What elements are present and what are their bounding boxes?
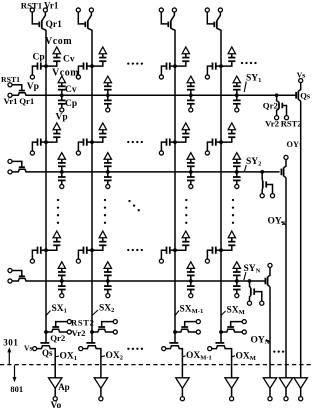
node output terminal OYN [268,397,272,401]
wire continuation dots column X3 [185,199,187,224]
capacitor Cv stack col2 rowline2 [104,159,112,174]
capacitor Cv stack col3 rowline3 [187,268,195,283]
svg-text:OXM: OXM [236,352,256,363]
wire 801 arrow [13,365,17,382]
capacitor Cv stack col1 rowline1 [58,83,66,98]
wire continuation dots band3 mid [127,249,143,251]
label RST2 (bottom col1) [71,317,95,327]
capacitor Cp stack col1 rowline2 [58,172,66,184]
wire continuation dots band1 mid [127,62,143,64]
node Vr2 terminal row3 [247,301,251,305]
transistor Qs row1 [296,83,301,101]
wire column line X3 [174,30,176,343]
leader OXM-1 [182,356,185,357]
capacitor Cp cell col2 row1 [78,63,94,75]
label Vr1 (left row1) [4,96,18,106]
capacitor Cp stack col1 rowline1 [58,95,66,107]
transistor Qr1 col3 [161,12,175,30]
power Vcom symbol cell col3 row1 [182,47,189,54]
node Vo terminal col3 [180,397,184,401]
power Vcom symbol cell col4 row2 [228,123,235,130]
svg-text:Qr1: Qr1 [46,20,63,30]
leader OY2 [281,222,286,225]
power Vcom symbol cell col3 row2 [182,123,189,130]
node Vr1 terminal col3 [172,8,176,12]
power Vcom symbol stack col1 rowline3 [58,262,65,269]
op-amp output OYN [263,378,276,397]
node Vp terminal cell col4 row1 [205,75,209,79]
wire output line OY2 [285,178,287,378]
svg-text:Qr1: Qr1 [19,96,34,106]
node RST1 terminal col2 [76,8,80,12]
node Vp terminal cell col2 row1 [76,75,80,79]
label OX2 [106,351,124,362]
label OY2 [268,217,286,228]
wire row line Y2 [12,169,279,172]
label Vp (stack row1) [56,113,68,123]
node Vp terminal stack col3 rowline3 [189,294,193,298]
svg-text:RST1: RST1 [1,75,20,84]
capacitor Cv cell col2 row3 [92,238,106,250]
transistor Qr2 col3 [173,322,196,334]
leader OX1 [55,355,59,358]
capacitor Cp cell col3 row2 [161,139,177,151]
capacitor Cp stack col1 rowline3 [58,281,66,293]
capacitor Cp stack col2 rowline1 [104,95,112,107]
node Vp terminal cell col4 row3 [205,259,209,263]
capacitor Cp stack col4 rowline1 [233,95,241,107]
node Vs terminal col2 [79,347,83,351]
transistor Qr1 col1 [32,12,46,30]
node Vp terminal cell col1 row1 [30,75,34,79]
svg-text:Vs: Vs [24,343,32,352]
capacitor Cp cell col1 row1 [32,63,47,75]
wire column line X1 [45,30,47,343]
node Vp terminal cell col4 row2 [205,151,209,155]
wire continuation dots bottom mid [127,348,143,350]
wire continuation dots bottom right [273,350,284,352]
svg-text:Qs: Qs [42,348,53,358]
label Vp (cell col1 row1) [27,82,39,92]
svg-text:Cv: Cv [65,85,77,95]
transistor Qr2 col2 [90,322,113,334]
wire output line OY3 [269,287,271,378]
capacitor Cv cell col3 row1 [175,54,189,66]
capacitor Cp stack col3 rowline2 [187,172,195,184]
label OXM-1 [186,351,212,362]
capacitor Cv stack col4 rowline2 [233,159,241,174]
label Ap [58,382,70,392]
label Cp (stack row1) [65,99,77,109]
node Vp terminal stack col1 rowline2 [60,184,64,188]
svg-text:Qs: Qs [300,90,311,100]
capacitor Cv cell col3 row2 [175,130,189,142]
svg-text:Cp: Cp [65,99,77,109]
svg-text:OY2: OY2 [268,217,286,228]
power Vcom symbol stack col1 rowline2 [58,153,65,160]
svg-text:SX2: SX2 [99,304,114,315]
svg-text:RST2: RST2 [71,317,95,327]
wire boundary dashed line [0,364,311,366]
label Vcom (stack row1) [52,68,79,79]
svg-text:SX1: SX1 [52,304,67,315]
node Vs terminal col1 [33,347,37,351]
svg-text:Vr1: Vr1 [44,0,59,10]
node RST1 terminal col3 [159,8,163,12]
svg-text:Vcom: Vcom [45,36,72,47]
wire row line Y1 [12,93,296,96]
svg-text:Vr1: Vr1 [4,96,18,106]
leader SX1 [46,311,51,316]
node RST2 terminal col4 [242,320,246,324]
svg-text:SXM: SXM [227,306,245,317]
label SY1 [246,74,261,85]
svg-text:RST1: RST1 [21,0,42,10]
label Qr1 (top) [46,20,63,30]
label SX2 [99,304,114,315]
leader SXM-1 [175,311,179,316]
label Qr2 (bottom col1) [50,333,66,343]
power Vcom symbol stack col3 rowline1 [187,76,194,83]
svg-text:OX1: OX1 [60,352,78,363]
svg-text:SXM-1: SXM-1 [180,305,204,316]
capacitor Cv stack col3 rowline1 [187,83,195,98]
label Vs (top right) [297,70,305,79]
capacitor Cv stack col4 rowline1 [233,83,241,98]
wire continuation dots column X2 [104,199,106,224]
node RST2 terminal row3 [260,301,264,305]
node Vp terminal stack col1 rowline3 [60,294,64,298]
svg-text:Vr2: Vr2 [265,119,280,129]
node Vs terminal row3 [268,263,272,267]
node Vp terminal stack col2 rowline2 [106,184,110,188]
svg-text:Cp: Cp [33,53,45,63]
transistor Qr2 row2 [260,170,272,194]
transistor Qr2 col4 [219,322,242,334]
node Vp terminal stack col4 rowline2 [235,184,239,188]
node RST2 terminal row2 [270,194,274,198]
node RST2 terminal col2 [113,320,117,324]
leader OXM [232,356,235,357]
power Vcom symbol cell col2 row1 [99,47,106,54]
transistor Qr1 row2 (left selector) [12,161,25,167]
wire 301 arrow [7,347,11,364]
power Vcom symbol stack col2 rowline1 [104,76,111,83]
power Vcom symbol cell col2 row2 [99,123,106,130]
label Qr1 (left row1) [19,96,34,106]
svg-text:RST2: RST2 [281,119,302,129]
svg-text:Vo: Vo [51,401,62,409]
transistor Qr1 row1 (left selector) [12,85,25,91]
label 301 [3,337,18,347]
node Vp terminal stack col2 rowline1 [106,108,110,112]
node Vr2 terminal col4 [242,330,246,334]
svg-text:Vcom: Vcom [52,68,79,79]
power Vcom symbol stack col3 rowline3 [187,262,194,269]
node Vo terminal col2 [99,397,103,401]
node Vs terminal col3 [162,347,166,351]
node Vp terminal cell col2 row3 [76,259,80,263]
capacitor Cp stack col2 rowline3 [104,281,112,293]
svg-text:801: 801 [10,384,23,394]
power Vcom symbol stack col1 rowline1 [58,76,65,83]
wire continuation dots band2 mid [127,141,143,143]
label Vr2 (right row1) [265,119,280,129]
transistor Qr2 row3 [248,279,262,301]
capacitor Cp stack col2 rowline2 [104,172,112,184]
node RST2 terminal col3 [196,320,200,324]
node Vr2 terminal col1 [67,330,71,334]
power Vcom symbol stack col3 rowline2 [187,153,194,160]
node RST1 terminal row3 [8,268,12,272]
wire output line OY1 [300,101,302,377]
op-amp output OY1 [294,378,307,397]
svg-text:SY1: SY1 [246,74,261,85]
node Vp terminal stack col2 rowline3 [106,294,110,298]
label Qs (bottom col1) [42,348,53,358]
label Cv (stack row1) [65,85,77,95]
node Vs terminal col4 [208,347,212,351]
capacitor Cv cell col1 row3 [46,238,60,250]
power Vcom symbol cell col3 row3 [182,231,189,238]
node RST2 terminal col1 [67,320,71,324]
transistor Qs col3 [166,343,183,378]
node Vp terminal stack col3 rowline1 [189,108,193,112]
node Vp terminal cell col1 row2 [30,151,34,155]
power Vcom symbol stack col2 rowline2 [104,153,111,160]
transistor Qs col4 [212,343,232,378]
node Vo terminal col1 [53,397,57,401]
node output terminal OY1 [299,397,303,401]
power Vcom symbol cell col1 row1 [53,47,60,54]
svg-text:Ap: Ap [58,382,70,392]
capacitor Cv cell col4 row2 [221,130,235,142]
wire continuation dots band1 right [241,62,257,64]
node Vr1 terminal col2 [89,8,93,12]
capacitor Cp cell col4 row3 [207,247,223,259]
capacitor Cv stack col2 rowline1 [104,83,112,98]
label Qs (top right) [300,90,311,100]
transistor Qr1 row3 (left selector) [12,271,25,277]
node Vr1 terminal row3 [8,279,12,283]
node Vs terminal row2 [284,155,288,159]
label RST1 (top) [21,0,42,10]
leader OY1 [300,143,301,145]
capacitor Cv cell col4 row3 [221,238,235,250]
label OY1 [287,140,302,151]
op-amp output OY2 [279,378,292,397]
label OYN [251,336,270,347]
label OX1 [60,352,78,363]
wire continuation dots diagonal [128,200,140,212]
label SXM-1 [180,305,204,316]
node RST1 terminal col1 [30,8,34,12]
svg-text:Vr2: Vr2 [72,328,87,338]
capacitor Cv cell col1 row1 [46,54,60,66]
node Vr1 terminal col1 [43,8,47,12]
capacitor Cp cell col1 row2 [32,139,47,151]
label RST1 (left row1) [1,75,20,84]
power Vcom symbol cell col1 row2 [53,123,60,130]
capacitor Cv cell col4 row1 [221,54,235,66]
node Vp terminal cell col1 row3 [30,259,34,263]
leader SYN [244,272,246,280]
leader OYN [266,340,270,343]
power Vcom symbol stack col4 rowline2 [233,153,240,160]
capacitor Cp cell col2 row3 [78,247,94,259]
power Vcom symbol stack col4 rowline1 [233,76,240,83]
capacitor Cv stack col3 rowline2 [187,159,195,174]
node RST2 terminal row1 [284,116,288,120]
node Vr1 terminal row2 [8,170,12,174]
label SY2 [246,157,261,168]
power Vcom symbol stack col2 rowline3 [104,262,111,269]
node Vp terminal stack col4 rowline3 [235,294,239,298]
node Vr2 terminal col3 [196,330,200,334]
capacitor Cp stack col4 rowline3 [233,281,241,293]
svg-text:OX2: OX2 [106,351,124,362]
svg-text:Vs: Vs [297,70,305,79]
wire row line Y3 [12,278,265,281]
label Vr2 (bottom col1) [72,328,87,338]
svg-text:Qr2: Qr2 [50,333,66,343]
node Vp terminal stack col3 rowline2 [189,184,193,188]
node Vs terminal row1 [299,79,303,83]
node Vo terminal col4 [230,397,234,401]
label Qr2 (right row1) [263,101,279,111]
capacitor Cv cell col2 row1 [92,54,106,66]
svg-text:OY1: OY1 [287,140,302,151]
capacitor Cv stack col1 rowline3 [58,268,66,283]
node Vp terminal cell col2 row2 [76,151,80,155]
capacitor Cv cell col2 row2 [92,130,106,142]
svg-text:Qr2: Qr2 [263,101,279,111]
label SYN [244,264,261,275]
capacitor Cp stack col3 rowline1 [187,95,195,107]
label SXM [227,306,245,317]
label 801 [10,384,23,394]
transistor Qr1 col2 [78,12,92,30]
leader SX2 [92,310,98,316]
label Vs (bottom col1) [24,343,32,352]
capacitor Cv stack col4 rowline3 [233,268,241,283]
node Vr2 terminal row1 [275,116,279,120]
power Vcom symbol cell col4 row3 [228,231,235,238]
capacitor Cv stack col1 rowline2 [58,159,66,174]
node RST1 terminal row2 [8,159,12,163]
node Vp terminal stack col4 rowline1 [235,108,239,112]
node Vp terminal stack col1 rowline1 [60,108,64,112]
svg-text:OXM-1: OXM-1 [186,351,212,362]
op-amp Ap col3 [176,378,189,397]
label Cp (cell col1 row1) [33,53,45,63]
label Vo [51,401,62,411]
svg-text:Vp: Vp [27,82,39,92]
leader SY2 [245,165,247,171]
node Vp terminal cell col3 row3 [159,259,163,263]
leader SY1 [244,82,246,93]
node RST1 terminal col4 [205,8,209,12]
node Vr2 terminal row2 [260,194,264,198]
node Vr2 terminal col2 [113,330,117,334]
wire continuation dots column X4 [232,199,234,224]
power Vcom symbol cell col4 row1 [228,47,235,54]
capacitor Cp cell col1 row3 [32,247,47,259]
transistor Qr1 col4 [207,12,221,30]
capacitor Cv cell col1 row2 [46,130,60,142]
capacitor Cv stack col2 rowline3 [104,268,112,283]
transistor Qr2 col1 [44,322,67,334]
capacitor Cp cell col4 row1 [207,63,223,75]
node Vr1 terminal row1 [8,93,12,97]
power Vcom symbol cell col2 row3 [99,231,106,238]
capacitor Cp stack col3 rowline3 [187,281,195,293]
svg-text:SY2: SY2 [246,157,261,168]
transistor Qs row2 [281,160,286,178]
svg-text:301: 301 [3,337,18,347]
power Vcom symbol stack col4 rowline3 [233,262,240,269]
node Vp terminal cell col3 row2 [159,151,163,155]
transistor Qs col1 [37,343,55,378]
op-amp Ap col4 [225,378,238,397]
leader OX2 [101,356,105,357]
node Vr1 terminal col4 [218,8,222,12]
leader SXM [221,311,226,316]
svg-text:Cv: Cv [63,55,75,65]
label SX1 [52,304,67,315]
label Cv (cell col1 row1) [63,55,75,65]
node Vp terminal cell col3 row1 [159,75,163,79]
label Vr1 (top) [44,0,59,10]
svg-text:Vp: Vp [56,113,68,123]
transistor Qs col2 [83,343,101,378]
label RST2 (right row1) [281,119,302,129]
power Vcom symbol cell col1 row3 [53,231,60,238]
capacitor Cv cell col3 row3 [175,238,189,250]
capacitor Cp cell col3 row3 [161,247,177,259]
label Vcom (cell col1 row1) [45,36,72,47]
wire continuation dots column X1 [57,199,59,224]
capacitor Cp cell col4 row2 [207,139,223,151]
wire column line X4 [220,30,222,343]
capacitor Cp cell col3 row1 [161,63,177,75]
capacitor Cp stack col4 rowline2 [233,172,241,184]
transistor Qr2 row1 [275,93,287,115]
capacitor Cp cell col2 row2 [78,139,94,151]
node RST1 terminal row1 [8,83,12,87]
node output terminal OY2 [284,397,288,401]
op-amp Ap col2 [94,378,107,397]
op-amp Ap col1 [49,378,62,397]
label OXM [236,352,256,363]
transistor Qs row3 [265,268,270,287]
wire column line X2 [91,30,93,343]
